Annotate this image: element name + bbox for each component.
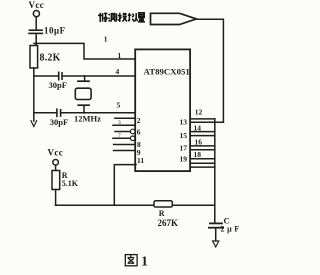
svg-text:13: 13 (180, 118, 188, 127)
svg-text:18: 18 (194, 150, 202, 159)
pin 16 stub (190, 145, 215, 147)
pin 7 stub with bubble (113, 137, 130, 139)
resistor R3 267K (154, 201, 172, 207)
svg-text:17: 17 (180, 143, 188, 152)
svg-text:4: 4 (116, 67, 120, 76)
svg-text:267K: 267K (158, 218, 179, 228)
capacitor C2 30pF (58, 72, 60, 79)
node analog input flag (151, 13, 197, 24)
resistor R1 8.2K (30, 46, 38, 69)
pin 17 stub (190, 149, 215, 151)
svg-text:30pF: 30pF (50, 117, 68, 127)
svg-text:15: 15 (180, 131, 188, 140)
svg-text:2: 2 (137, 116, 141, 125)
pin 3 stub (113, 124, 135, 126)
svg-text:11: 11 (137, 156, 144, 165)
wire C4 to ground (215, 229, 217, 242)
node Vcc2 terminal circle (53, 160, 59, 166)
wire bottom rail right (172, 204, 215, 206)
pin 6 stub with bubble (115, 131, 130, 133)
wire R2 to bottom rail (55, 190, 57, 206)
pin 13 wire to analog input (190, 121, 223, 123)
char Liang (138, 13, 145, 22)
svg-text:8.2K: 8.2K (40, 53, 61, 64)
svg-text:3: 3 (118, 120, 121, 126)
capacitor C3 30pF (56, 109, 58, 116)
svg-text:19: 19 (180, 155, 188, 164)
svg-text:R: R (159, 209, 165, 218)
svg-text:AT89CX051: AT89CX051 (144, 67, 190, 77)
node label: measured analog quantity (CJK) (98, 13, 145, 22)
svg-text:1: 1 (118, 51, 122, 60)
char Ni (128, 13, 138, 22)
char Ce (108, 13, 116, 21)
IC U1 AT89CX051 (MCU box) (135, 49, 190, 171)
pin 15 stub (190, 135, 215, 137)
svg-text:12: 12 (195, 107, 203, 116)
svg-text:30pF: 30pF (49, 80, 67, 90)
wire branch XTAL2 (pin 4) (34, 75, 58, 77)
pin 8 stub (114, 144, 136, 146)
wire Vcc terminal to C1 (35, 17, 37, 29)
resistor R2 5.1K (52, 171, 60, 190)
wire C1 to R1 top / reset node (35, 34, 37, 45)
wire P1 bus vertical (214, 119, 216, 223)
pin 20 stub (190, 166, 215, 168)
svg-text:16: 16 (195, 137, 203, 146)
wire bottom rail left (56, 204, 154, 206)
svg-text:Vcc: Vcc (48, 148, 64, 158)
pin 9 stub (114, 150, 136, 152)
node Vcc terminal circle (33, 11, 39, 17)
ground (left rail arrow) (31, 121, 37, 127)
pin 14 stub (190, 131, 215, 133)
svg-text:12MHz: 12MHz (74, 113, 101, 123)
crystal Y1 12MHz (84, 76, 86, 81)
wire R1 bottom down left rail (33, 68, 35, 121)
wire Vcc2 to R2 (55, 165, 57, 170)
pin 12 stub (190, 118, 215, 120)
pin 19 stub (190, 162, 215, 164)
svg-text:1: 1 (141, 254, 148, 269)
pin 11 wire to bottom rail (114, 165, 136, 206)
svg-text:7: 7 (118, 133, 121, 139)
wire reset node to pin 1 (RST) (36, 43, 135, 59)
char Bei (98, 13, 107, 22)
wire flag to pin 13 (196, 19, 223, 122)
svg-text:6: 6 (137, 127, 141, 136)
capacitor C1 10uF (reset cap) (29, 29, 42, 31)
wire C3 to pin 5 (61, 112, 135, 114)
wire branch XTAL1 (pin 5) (34, 112, 56, 114)
pin 18 stub (190, 158, 215, 160)
svg-text:2μF: 2μF (221, 225, 242, 234)
wire C2 to pin 4 (62, 75, 135, 77)
ground (bottom-right arrow) (213, 241, 219, 247)
svg-text:5: 5 (117, 101, 121, 110)
svg-text:10μF: 10μF (44, 26, 66, 36)
char Mo (118, 13, 127, 22)
node label: figure caption (CJK Tu 1) (125, 255, 137, 266)
svg-text:5.1K: 5.1K (62, 179, 79, 188)
capacitor C4 2uF (210, 222, 222, 224)
svg-text:Vcc: Vcc (29, 0, 45, 10)
pin 2 stub (115, 117, 135, 119)
svg-text:1: 1 (104, 35, 108, 44)
